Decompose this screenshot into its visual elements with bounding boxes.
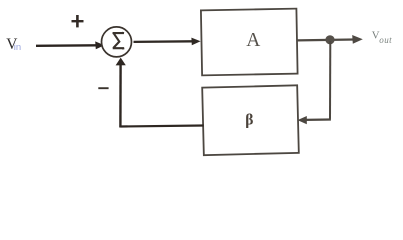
svg-text:β: β	[245, 112, 253, 129]
node junction dot	[325, 35, 334, 44]
node Vout label	[372, 30, 392, 45]
wire summing junction to block A	[134, 38, 201, 46]
wire node down to beta input	[298, 41, 331, 124]
wire input Vin to summing junction	[36, 41, 104, 49]
block A box	[201, 9, 298, 76]
wire beta output to summing junction	[116, 58, 204, 128]
node Vin label	[6, 36, 21, 53]
svg-text:out: out	[379, 35, 392, 45]
svg-text:in: in	[14, 42, 21, 53]
wire block A to Vout	[298, 35, 363, 44]
summing junction sigma	[102, 27, 132, 57]
minus sign	[98, 87, 108, 89]
plus sign	[72, 15, 84, 27]
block beta box	[202, 85, 299, 155]
svg-text:A: A	[246, 30, 260, 51]
